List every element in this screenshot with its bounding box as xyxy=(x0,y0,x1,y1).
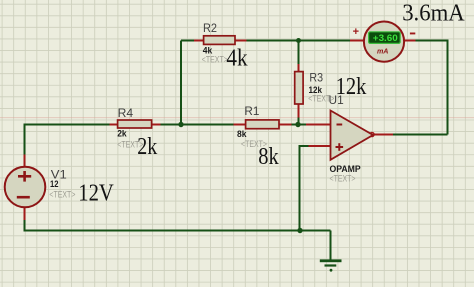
svg-text:2k: 2k xyxy=(117,128,127,138)
svg-text:4k: 4k xyxy=(226,46,247,72)
svg-text:12V: 12V xyxy=(78,181,114,207)
svg-text:+3.60: +3.60 xyxy=(373,33,398,44)
svg-text:R4: R4 xyxy=(118,106,134,120)
svg-text:R3: R3 xyxy=(309,71,323,85)
svg-text:R2: R2 xyxy=(203,21,217,35)
svg-text:mA: mA xyxy=(377,47,389,56)
svg-text:<TEXT>: <TEXT> xyxy=(202,55,228,65)
svg-text:8k: 8k xyxy=(237,129,247,139)
svg-text:12k: 12k xyxy=(336,74,367,100)
svg-text:8k: 8k xyxy=(258,144,279,170)
svg-text:<TEXT>: <TEXT> xyxy=(308,94,334,104)
svg-text:12: 12 xyxy=(50,179,59,189)
svg-text:3.6mA: 3.6mA xyxy=(402,0,465,26)
svg-text:<TEXT>: <TEXT> xyxy=(49,189,75,199)
svg-text:2k: 2k xyxy=(137,134,157,160)
svg-text:+: + xyxy=(353,26,359,38)
svg-text:<TEXT>: <TEXT> xyxy=(330,174,356,184)
svg-text:R1: R1 xyxy=(244,104,259,118)
